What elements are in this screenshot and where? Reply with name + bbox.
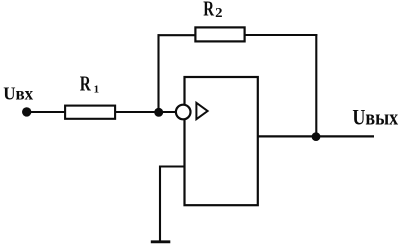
svg-text:2: 2 xyxy=(215,5,223,20)
wire non-inverting input to ground xyxy=(160,167,184,242)
op-amp gain triangle xyxy=(196,103,207,119)
op-amp U1 body xyxy=(185,77,258,205)
wire input node to R1 xyxy=(27,111,66,113)
wire R2 to top right corner xyxy=(245,34,318,36)
output junction node xyxy=(312,132,321,141)
wire output xyxy=(258,135,374,137)
resistor R2 xyxy=(195,27,244,41)
svg-text:R: R xyxy=(80,72,92,96)
wire feedback vertical left (node A up) xyxy=(157,34,159,112)
wire R1 to node A xyxy=(115,111,177,113)
resistor R1 xyxy=(65,106,115,119)
node A junction dot xyxy=(154,108,163,117)
ground xyxy=(151,240,171,243)
svg-text:R: R xyxy=(203,0,214,21)
svg-text:Uвых: Uвых xyxy=(352,105,398,130)
wire feedback vertical right (down to output node) xyxy=(315,34,317,137)
input terminal node xyxy=(22,107,31,116)
svg-text:Uвх: Uвх xyxy=(3,83,33,103)
wire top left to R2 xyxy=(158,34,197,36)
svg-text:1: 1 xyxy=(94,83,100,95)
inverting input circle xyxy=(176,105,191,120)
